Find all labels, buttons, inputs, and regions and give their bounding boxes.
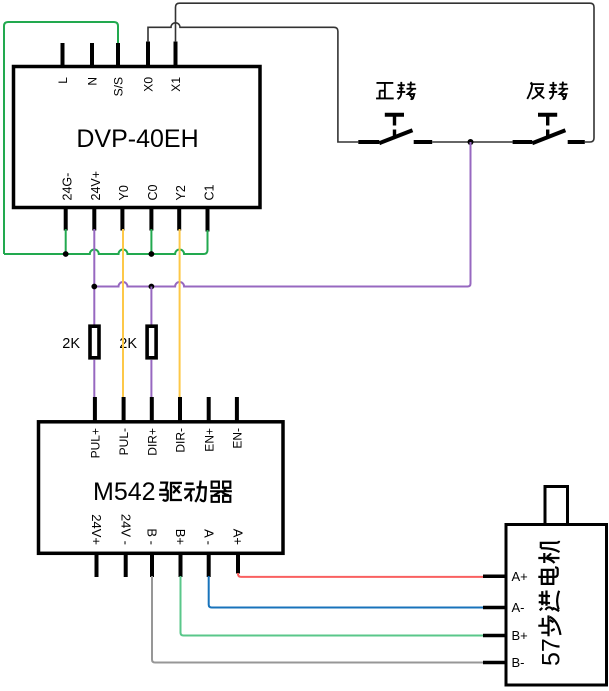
wire orange Y0 to PUL-	[122, 229, 124, 397]
motor title 57	[538, 541, 566, 666]
switch SB2 right contact	[568, 140, 585, 144]
pin PUL-	[122, 397, 126, 422]
pin A- bottom	[207, 553, 211, 577]
motor pin A+	[483, 575, 506, 579]
pin X1	[174, 42, 178, 68]
pin EN+	[207, 397, 211, 422]
svg-text:N: N	[85, 77, 99, 86]
switch SB1 正转 (NO pushbutton) left contact	[358, 140, 379, 144]
wire green B+ to motor	[181, 576, 484, 636]
svg-text:S/S: S/S	[111, 77, 125, 96]
wire purple R1 to PUL+	[93, 360, 95, 397]
svg-text:24G-: 24G-	[61, 173, 75, 201]
svg-text:A-: A-	[512, 600, 525, 615]
switch SB2 反转 label	[527, 82, 544, 99]
switch SB1 正转 label	[376, 83, 394, 98]
svg-text:C1: C1	[202, 184, 216, 200]
svg-text:B-: B-	[512, 655, 525, 670]
svg-text:2K: 2K	[119, 336, 137, 352]
switch SB1 moving contact diagonal	[379, 130, 412, 143]
pin S/S	[116, 43, 120, 67]
wire green horizontal rail with hops	[4, 250, 204, 254]
svg-text:B+: B+	[512, 628, 528, 643]
pin B- bottom	[150, 553, 154, 577]
wire purple 24V+ down to R1	[93, 229, 95, 326]
junction dot purple R2 tap	[149, 284, 155, 290]
svg-text:57: 57	[538, 638, 566, 666]
svg-text:M542: M542	[93, 478, 156, 506]
resistor R2 2K	[147, 326, 156, 358]
svg-text:B+: B+	[173, 529, 188, 545]
pin C1	[206, 206, 210, 232]
switch SB2 actuator stem	[546, 117, 549, 137]
svg-text:PUL-: PUL-	[117, 428, 131, 455]
svg-text:DIR-: DIR-	[174, 428, 188, 453]
switch SB1 actuator stem	[393, 117, 396, 137]
switch SB1 right contact	[414, 140, 433, 144]
pin N	[90, 43, 94, 67]
svg-text:Y0: Y0	[117, 185, 131, 200]
pin 24V+ bottom	[95, 553, 99, 577]
junction dot switches to purple	[468, 139, 474, 145]
svg-text:A+: A+	[512, 569, 528, 584]
pin PUL+	[93, 397, 97, 422]
svg-text:DIR+: DIR+	[145, 428, 159, 456]
pin L	[61, 43, 65, 67]
motor shaft	[545, 487, 568, 525]
svg-text:PUL+: PUL+	[89, 428, 103, 458]
svg-text:24V+: 24V+	[89, 171, 103, 201]
pin A+ bottom	[236, 553, 240, 574]
wire red A+ to motor	[238, 573, 483, 577]
pin C0	[149, 206, 153, 231]
switch SB2 反转 left contact	[513, 140, 533, 144]
svg-text:24V -: 24V -	[118, 514, 133, 545]
wire green 24G- drop	[65, 229, 67, 254]
svg-text:A+: A+	[231, 529, 246, 545]
wire orange Y2 to DIR-	[179, 229, 181, 397]
svg-text:L: L	[56, 77, 70, 84]
wire purple horizontal rail with hops up to switches junction	[94, 142, 470, 287]
junction dot green 24G-	[63, 251, 69, 257]
PLC box DVP-40EH	[14, 67, 261, 208]
junction dot purple 24V+	[91, 284, 97, 290]
wire purple tap down to R2	[150, 287, 152, 327]
switch SB1 actuator cap	[385, 113, 404, 117]
svg-text:A -: A -	[201, 529, 216, 545]
svg-text:EN+: EN+	[202, 428, 216, 452]
pin 24V- bottom	[124, 553, 128, 577]
wire green S/S to common rail	[4, 22, 118, 254]
switch SB2 actuator cap	[538, 113, 557, 117]
M542 title CJK 驱动器	[159, 483, 182, 501]
wire X1 to right switch (dark)	[176, 3, 595, 142]
svg-text:X1: X1	[169, 77, 183, 92]
pin EN-	[235, 397, 239, 422]
wire green C1 drop with corner	[204, 230, 208, 254]
junction dot green C0	[149, 251, 155, 257]
wire gray B- to motor	[152, 576, 483, 663]
svg-text:Y2: Y2	[174, 185, 188, 200]
pin DIR-	[178, 397, 182, 422]
svg-text:24V+: 24V+	[89, 514, 104, 545]
svg-text:C0: C0	[146, 184, 160, 200]
svg-text:EN-: EN-	[231, 428, 245, 449]
pin Y0	[120, 206, 124, 231]
wire junction to switch SB2	[471, 141, 513, 143]
motor pin A-	[483, 606, 506, 610]
pin Y2	[177, 206, 181, 231]
wire blue A- to motor	[209, 576, 483, 608]
svg-text:2K: 2K	[62, 336, 80, 352]
pin DIR+	[150, 397, 154, 422]
motor pin B-	[483, 661, 506, 665]
wire purple R2 to DIR+	[150, 360, 152, 397]
wire green C0 drop	[150, 229, 152, 254]
pin 24G-	[64, 206, 68, 231]
pin X0	[146, 42, 150, 68]
switch SB2 moving contact diagonal	[532, 130, 565, 143]
pin 24V+	[92, 206, 96, 231]
pin B+ bottom	[179, 553, 183, 577]
svg-text:DVP-40EH: DVP-40EH	[76, 125, 198, 153]
motor box 57步进电机	[506, 525, 607, 686]
svg-text:X0: X0	[141, 77, 155, 92]
resistor R1 2K	[90, 326, 99, 358]
driver box M542	[39, 422, 284, 554]
wire switch SB1 to junction	[432, 141, 470, 143]
svg-text:B -: B -	[145, 528, 160, 545]
motor pin B+	[483, 634, 506, 638]
wire X0 to left switch (dark, hop over X1)	[148, 23, 358, 142]
motor title CJK 步进电机	[538, 615, 560, 636]
